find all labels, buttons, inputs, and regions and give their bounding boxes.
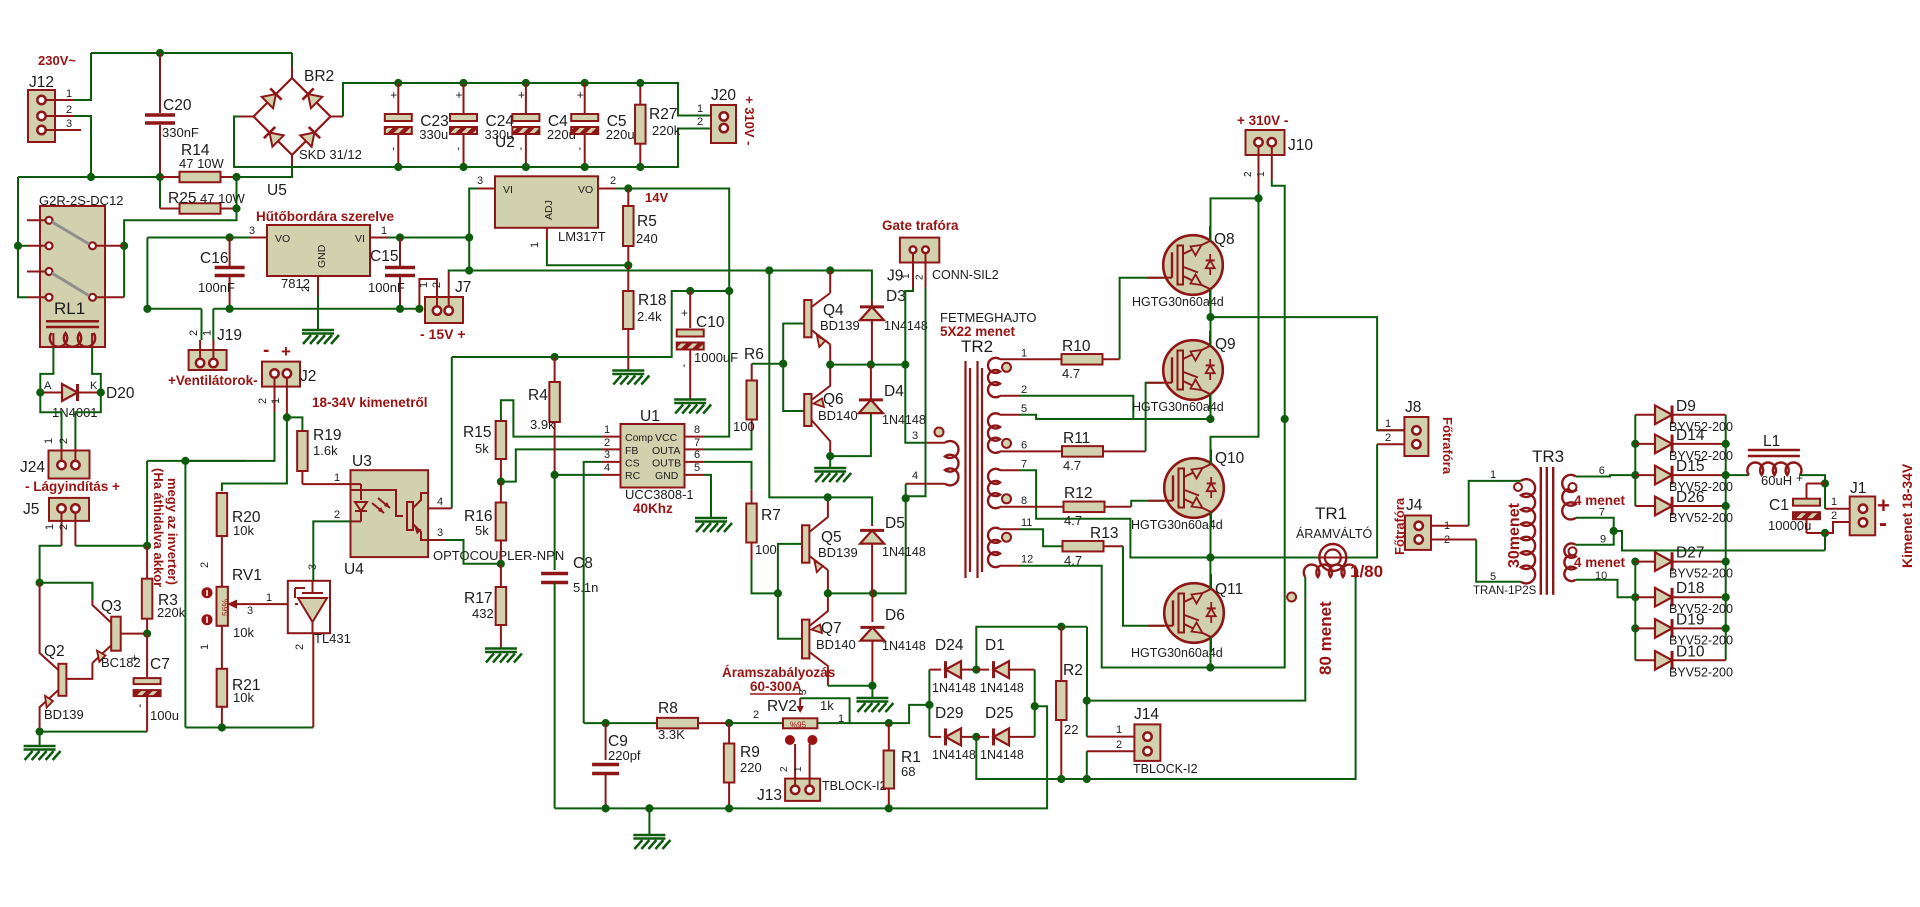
wire VI up: [469, 189, 477, 238]
svg-text:C20: C20: [163, 97, 192, 114]
svg-text:1N4148: 1N4148: [932, 748, 976, 762]
junction: [867, 361, 874, 368]
svg-text:2: 2: [334, 509, 340, 521]
svg-text:1N4148: 1N4148: [932, 681, 976, 695]
diode D9: [1635, 414, 1655, 416]
wire bridge right east: [889, 706, 1047, 808]
junction: [581, 79, 588, 86]
svg-text:220pf: 220pf: [608, 748, 641, 763]
junction: [1632, 472, 1639, 479]
junction: [824, 590, 831, 597]
capacitor C8: [554, 475, 556, 570]
svg-text:1: 1: [1256, 171, 1267, 177]
svg-text:18-34V kimenetről: 18-34V kimenetről: [312, 395, 428, 410]
wire top pos rail: [398, 83, 711, 116]
svg-text:R5: R5: [637, 213, 657, 230]
ground Q7 D6: [856, 697, 888, 700]
Q5 collector: [809, 497, 828, 532]
resistor R12: [1020, 506, 1063, 508]
wire RV1 wiper to U4: [248, 603, 288, 605]
junction: [497, 560, 504, 567]
J8 pin1 stub: [1377, 429, 1404, 431]
svg-text:R18: R18: [638, 292, 666, 309]
junction: [395, 79, 402, 86]
svg-text:100nF: 100nF: [198, 280, 235, 295]
transistor Q9: [1163, 340, 1223, 400]
junction: [87, 173, 94, 180]
connector J1 vertical: [1850, 497, 1876, 536]
svg-text:D14: D14: [1676, 427, 1705, 444]
ground U1.5: [695, 517, 727, 520]
wire TR3.6: [1576, 475, 1636, 476]
svg-text:-: -: [1879, 510, 1887, 537]
wire R7 bottom: [752, 560, 778, 593]
svg-text:47 10W: 47 10W: [200, 191, 246, 206]
connector J13: [785, 779, 820, 801]
svg-text:7: 7: [694, 437, 700, 449]
connector J24: [49, 451, 90, 479]
svg-text:VO: VO: [578, 184, 593, 196]
wire J9.1 down: [905, 365, 926, 443]
svg-text:Hűtőbordára szerelve: Hűtőbordára szerelve: [256, 209, 395, 224]
svg-text:2.4k: 2.4k: [637, 309, 662, 324]
svg-text:D4: D4: [884, 383, 904, 400]
svg-text:2: 2: [1831, 510, 1837, 522]
junction: [1722, 594, 1729, 601]
junction: [522, 163, 529, 170]
svg-text:60uH: 60uH: [1761, 473, 1792, 488]
svg-text:2: 2: [1116, 739, 1122, 751]
svg-text:+: +: [390, 88, 397, 102]
svg-text:C10: C10: [696, 314, 725, 331]
svg-text:BYV52-200: BYV52-200: [1669, 567, 1733, 581]
svg-text:1000uF: 1000uF: [694, 350, 738, 365]
svg-text:U1: U1: [640, 408, 660, 425]
U2 pin1: [370, 237, 388, 239]
wire BR2 top: [291, 67, 293, 78]
svg-text:+: +: [518, 88, 525, 102]
resistor R19: [297, 431, 308, 471]
capacitor C15: [399, 238, 401, 267]
junction: [902, 361, 909, 368]
junction: [551, 471, 558, 478]
diode D24: [929, 669, 941, 671]
wire TR3.10: [1576, 580, 1636, 598]
ic U2 7812: [267, 225, 370, 276]
svg-text:GND: GND: [655, 470, 679, 482]
junction: [396, 234, 403, 241]
svg-text:D26: D26: [1676, 489, 1704, 506]
svg-text:1: 1: [1490, 469, 1496, 481]
junction: [395, 163, 402, 170]
U3 transistor: [407, 502, 413, 530]
svg-text:- 15V +: - 15V +: [420, 326, 466, 342]
wire TR1 sec right: [1087, 577, 1356, 779]
pot RV1: [217, 587, 228, 626]
transistor Q8: [1163, 235, 1223, 295]
svg-text:RV2: RV2: [767, 698, 797, 715]
J12 pin2 stub: [46, 115, 73, 117]
resistor R4: [554, 357, 556, 382]
Q3 emitter diag: [92, 645, 111, 663]
junction: [973, 733, 980, 740]
junction: [1722, 502, 1729, 509]
J7 pin2: [448, 272, 450, 306]
connector J7: [425, 297, 463, 323]
wire anode bus bottom: [1634, 562, 1636, 661]
stub BR2 bottom: [291, 155, 293, 165]
wire AC1 up: [976, 627, 1087, 670]
svg-text:2: 2: [604, 437, 610, 449]
TR3 primary dot: [1514, 483, 1522, 491]
junction: [1083, 775, 1090, 782]
svg-text:5: 5: [1021, 403, 1027, 415]
svg-text:3.9k: 3.9k: [530, 417, 555, 432]
junction: [396, 305, 403, 312]
svg-text:2: 2: [257, 398, 269, 404]
TR2 core: [964, 361, 966, 578]
wire CS row: [584, 722, 657, 724]
Q3 collector diag: [92, 605, 111, 623]
U3 pin3: [428, 539, 445, 541]
svg-text:100: 100: [733, 419, 755, 434]
U1 pin1: [602, 436, 621, 438]
svg-text:Q6: Q6: [823, 391, 844, 408]
svg-text:+: +: [1796, 471, 1803, 485]
diode D29: [929, 736, 941, 738]
svg-text:60-300A: 60-300A: [750, 679, 802, 694]
J1 pin1 stub: [1825, 508, 1850, 510]
svg-text:+: +: [456, 88, 463, 102]
TR1 secondary: [1304, 565, 1357, 577]
J5 pin1: [61, 513, 63, 546]
svg-text:BD139: BD139: [818, 545, 858, 560]
wire L1 east: [1800, 475, 1825, 509]
junction: [827, 361, 834, 368]
wire R19 to U3.1: [302, 483, 350, 485]
J2 pin2: [274, 378, 276, 412]
relay contact circle: [89, 294, 96, 301]
junction: [36, 579, 43, 586]
U3 led: [360, 484, 362, 500]
relay contact circle: [46, 217, 53, 224]
junction: [156, 173, 163, 180]
wire J8.2 to TR1: [1346, 444, 1377, 557]
junction: [766, 267, 773, 274]
J1 pin2 stub: [1825, 522, 1850, 533]
svg-text:Főtrafóra: Főtrafóra: [1392, 497, 1407, 555]
wire coil left down: [40, 348, 53, 393]
svg-text:2: 2: [188, 330, 200, 336]
svg-text:K: K: [90, 380, 98, 392]
resistor R10: [1020, 358, 1062, 360]
svg-text:1: 1: [270, 398, 282, 404]
svg-text:4 menet: 4 menet: [1574, 555, 1626, 570]
svg-text:+: +: [681, 306, 688, 320]
junction: [870, 590, 877, 597]
J4 pin1 wire: [1431, 525, 1468, 527]
wire divider bottom rail: [185, 727, 313, 729]
wire VCC down to U1.8: [703, 291, 729, 437]
TR3 secondary A: [1562, 475, 1576, 520]
junction: [144, 305, 151, 312]
junction: [780, 360, 787, 367]
wire Q10 emitter: [1210, 512, 1212, 558]
junction: [1722, 625, 1729, 632]
svg-text:C8: C8: [573, 555, 593, 572]
svg-text:J2: J2: [300, 368, 316, 385]
junction: [416, 305, 423, 312]
diode D10: [1635, 659, 1655, 661]
relay contact circle: [89, 242, 96, 249]
svg-text:5: 5: [694, 462, 700, 474]
junction: [121, 242, 128, 249]
svg-text:2: 2: [58, 438, 70, 444]
resistor R1: [888, 723, 890, 750]
svg-text:J13: J13: [757, 787, 782, 804]
wire J5.1 west down: [40, 546, 62, 583]
diode D20: [40, 392, 64, 394]
svg-text:2: 2: [294, 644, 306, 650]
junction: [497, 478, 504, 485]
svg-text:BD139: BD139: [44, 707, 84, 722]
J19 pin1 wire: [212, 309, 214, 340]
TR2 secondary 1-2: [1000, 358, 1020, 360]
TR2 secondary 11-12: [1000, 528, 1020, 530]
svg-text:D3: D3: [886, 288, 906, 305]
diode D27: [1635, 561, 1655, 563]
svg-text:+ 310V -: + 310V -: [1237, 113, 1288, 128]
marker red dot J13a: [785, 736, 794, 745]
relay stub com2: [27, 296, 46, 298]
LM317 pin2: [598, 188, 616, 190]
svg-text:1k: 1k: [820, 698, 834, 713]
junction: [283, 414, 290, 421]
bridge diode bottom-left: [270, 133, 284, 147]
U1 pin6 wire: [703, 462, 752, 490]
svg-text:240: 240: [636, 231, 658, 246]
svg-text:Q4: Q4: [823, 302, 844, 319]
R15 bottom: [500, 459, 502, 482]
svg-text:J24: J24: [20, 459, 45, 476]
svg-text:': ': [139, 702, 141, 716]
svg-text:1: 1: [697, 103, 703, 115]
svg-text:3: 3: [249, 225, 255, 237]
svg-text:ADJ: ADJ: [543, 200, 555, 220]
ground R17: [485, 647, 517, 650]
svg-text:10k: 10k: [233, 625, 254, 640]
junction: [218, 724, 225, 731]
resistor R7: [751, 490, 753, 504]
transistor Q3: [111, 617, 121, 651]
junction: [1821, 480, 1828, 487]
svg-text:10000u: 10000u: [1768, 518, 1811, 533]
svg-text:U3: U3: [352, 453, 372, 470]
wire Q7c to D6: [828, 686, 873, 697]
svg-text:Comp: Comp: [625, 432, 653, 444]
U3 pin2 wire: [313, 521, 350, 580]
relay stub com1: [27, 245, 46, 247]
TR3 secondary B: [1564, 543, 1575, 581]
Q6 collector: [812, 420, 831, 456]
resistor R20: [217, 493, 228, 536]
svg-text:J14: J14: [1134, 706, 1159, 723]
wire midpoint1: [1211, 317, 1405, 430]
TR2 phase dot: [1002, 439, 1011, 448]
Q3 base stub: [121, 633, 147, 635]
U1 pin4 wire: [555, 474, 602, 476]
svg-text:': ': [683, 362, 685, 376]
svg-text:1: 1: [418, 282, 430, 288]
svg-text:2: 2: [1021, 384, 1027, 396]
wire J14.2: [1086, 751, 1088, 779]
svg-text:3: 3: [247, 605, 253, 617]
junction: [1722, 558, 1729, 565]
wire east vert to CT: [1086, 627, 1088, 701]
wire Q11 collector: [1209, 558, 1211, 590]
TR2 phase dot: [1002, 363, 1011, 372]
svg-text:BD140: BD140: [818, 408, 858, 423]
TR1 phase dot: [1287, 593, 1296, 602]
marker red dot down: [202, 615, 212, 625]
svg-text:- Lágyindítás +: - Lágyindítás +: [25, 479, 120, 494]
junction: [144, 542, 151, 549]
svg-text:Q3: Q3: [101, 598, 122, 615]
ground bottom rail: [648, 808, 650, 834]
svg-text:1: 1: [529, 242, 541, 248]
wire J5.2 east: [75, 545, 147, 547]
svg-text:220: 220: [740, 760, 762, 775]
junction: [1610, 527, 1617, 534]
wire anode bus top: [1634, 415, 1636, 506]
svg-text:-: -: [263, 340, 269, 361]
wire J2.2 down: [146, 461, 148, 546]
junction: [233, 173, 240, 180]
svg-text:BYV52-200: BYV52-200: [1669, 665, 1733, 679]
svg-text:GND: GND: [316, 244, 328, 268]
relay stub no2: [96, 296, 124, 298]
relay RL1: [40, 206, 105, 347]
svg-text:220k: 220k: [652, 123, 681, 138]
connector J14 vertical: [1134, 724, 1160, 761]
wire D15 to L1: [1726, 474, 1749, 476]
capacitor C9: [605, 723, 607, 760]
J13 pin2: [794, 744, 796, 785]
svg-text:2: 2: [431, 282, 443, 288]
ic LM317: [495, 176, 598, 228]
junction: [637, 163, 644, 170]
resistor R17: [500, 564, 502, 587]
junction: [726, 287, 733, 294]
svg-text:J19: J19: [217, 327, 242, 344]
svg-text:VCC: VCC: [655, 432, 678, 444]
connector J10: [1246, 130, 1285, 155]
TR3 core: [1540, 467, 1542, 595]
svg-text:1: 1: [1831, 496, 1837, 508]
wire TR2.11: [1020, 529, 1063, 546]
marker red dot up: [202, 588, 212, 598]
diode D3: [871, 300, 873, 308]
J8 pin2 stub: [1377, 443, 1404, 445]
svg-text:+: +: [577, 88, 584, 102]
svg-text:LM317T: LM317T: [558, 229, 606, 244]
svg-text:12: 12: [1021, 554, 1033, 566]
wire R10 to Q8 gate: [1120, 278, 1164, 360]
svg-text:D27: D27: [1676, 545, 1704, 562]
wire bridge left node: [928, 670, 930, 737]
svg-text:30menet: 30menet: [1506, 502, 1523, 568]
junction: [37, 389, 44, 396]
svg-text:RC: RC: [625, 470, 641, 482]
junction: [1632, 625, 1639, 632]
svg-text:D1: D1: [985, 637, 1005, 654]
junction: [182, 457, 189, 464]
TR3 secA dot: [1569, 483, 1577, 491]
svg-text:6: 6: [1599, 465, 1605, 477]
J13 pin1: [809, 744, 811, 785]
J2 pin1: [286, 378, 288, 417]
junction: [226, 305, 233, 312]
svg-text:R27: R27: [649, 106, 677, 123]
svg-text:100nF: 100nF: [368, 280, 405, 295]
diode D15: [1635, 474, 1655, 476]
wire D1 anode down: [1034, 670, 1036, 707]
svg-text:9: 9: [1600, 534, 1606, 546]
svg-text:D24: D24: [935, 637, 964, 654]
svg-text:D19: D19: [1676, 611, 1704, 628]
wire R12 to Q10 gate: [1131, 501, 1164, 507]
svg-text:Q11: Q11: [1215, 581, 1243, 598]
svg-text:J4: J4: [1406, 497, 1423, 514]
svg-text:7: 7: [1021, 458, 1027, 470]
wire TR2.2: [1020, 396, 1133, 419]
resistor R21: [221, 626, 223, 669]
wire R11 to Q9 gate: [1146, 383, 1164, 452]
wire BR2 left to neg rail: [240, 116, 254, 118]
svg-text:J12: J12: [29, 74, 54, 91]
relay contact circle: [46, 268, 53, 275]
connector J19: [189, 350, 227, 370]
pot RV2 wiper: [797, 706, 804, 713]
svg-text:HGTG30n60a4d: HGTG30n60a4d: [1131, 518, 1223, 532]
U2 pin3: [249, 237, 267, 239]
svg-text:BR2: BR2: [304, 68, 334, 85]
wire emitter rail: [40, 731, 148, 733]
pot RV2 rheostat link: [800, 698, 849, 723]
wire R25 to relay: [124, 177, 236, 297]
J4 pin2 wire: [1431, 539, 1476, 541]
svg-text:VI: VI: [503, 184, 513, 196]
svg-text:1: 1: [793, 766, 804, 772]
svg-text:J7: J7: [455, 279, 471, 296]
wire VO east: [616, 189, 729, 292]
marker red dot J13b: [808, 736, 817, 745]
TR2 primary phase dot: [935, 428, 944, 437]
wire R15 top to Comp: [501, 400, 602, 436]
svg-text:8: 8: [1021, 495, 1027, 507]
wire Q6c to D4: [830, 414, 871, 457]
svg-text:1: 1: [266, 592, 272, 604]
svg-text:230V~: 230V~: [38, 53, 76, 68]
svg-text:2: 2: [66, 104, 72, 116]
svg-text:1N4148: 1N4148: [980, 681, 1024, 695]
svg-text:10k: 10k: [233, 690, 254, 705]
resistor R18: [627, 265, 629, 291]
svg-text:(Ha áthidalva akkor: (Ha áthidalva akkor: [151, 468, 166, 587]
wire midpoint2: [1210, 557, 1319, 559]
svg-text:Q2: Q2: [44, 643, 65, 660]
svg-text:D6: D6: [885, 607, 905, 624]
